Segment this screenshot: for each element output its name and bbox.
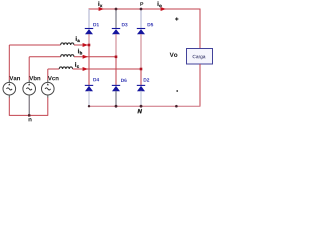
wire: Van top stub [8,80,10,83]
label Vo [170,53,178,57]
wire: leg2 D6 anode lead to bottom rail [115,91,117,106]
junction bottom rail leg1 [88,105,90,107]
junction phase a node [88,44,91,47]
label D4 [93,78,99,81]
label ia [76,36,80,42]
junction top rail leg3 node P [140,8,143,11]
wire: phase a horizontal left [9,44,60,46]
wire: phase b vertical from Vbn [28,57,30,80]
wire: Vcn bottom stub [47,95,49,98]
wire: Vbn top stub [28,80,30,83]
wire: leg3 D2 anode lead to bottom rail [140,91,142,106]
diode D6 [112,85,120,91]
label D3 [122,23,128,26]
polarity minus dot [176,90,178,92]
diode D4 [85,85,93,91]
polarity plus sign [175,17,178,20]
label ic [75,62,79,68]
wire: top rail node P [89,8,201,10]
wire: Vbn bottom stub [28,95,30,98]
label D2 [144,78,150,81]
label n [29,118,32,121]
wire: leg2 phase b node down to D6 [115,57,117,86]
wire: phase b to leg2 [74,56,116,58]
current arrow ib [83,55,88,59]
label Carga [193,55,206,59]
diode D3 [112,29,120,35]
label ib [78,49,82,55]
junction bottom rail load return [175,105,178,108]
label P [140,2,143,6]
wire: phase c horizontal left [48,68,59,70]
wire: phase a to leg1 [74,44,89,46]
current arrow io on top rail [161,7,166,11]
inductor Lb [61,55,74,57]
junction node n [28,114,30,116]
label Vcn [48,76,59,80]
wire: leg2 top lead [115,9,117,29]
source Vbn [23,82,36,95]
junction bottom rail leg3 node N [140,105,143,108]
inductor Lc [59,67,72,69]
wire: Van bottom to neutral bus [8,98,10,116]
wire: bottom rail node N [89,105,201,107]
wire: load bottom to bottom rail [199,64,201,106]
label Vbn [29,76,40,80]
wire: Vcn top stub [47,80,49,83]
inductor La [61,43,74,45]
wire: phase c to leg3 [73,68,141,70]
wire: leg1 top lead (D1 cathode lead) [88,9,90,29]
label io [158,2,162,8]
wire: leg3 D5 anode to phase c node [140,34,142,69]
diode D1 [85,29,93,35]
junction phase b node [115,56,118,59]
current arrow ic [83,67,88,71]
wire: leg1 D1 anode to phase a node [88,34,90,45]
label D6 [121,79,127,82]
wire: phase c vertical from Vcn [47,69,49,80]
junction top rail leg2 [115,8,118,11]
current arrow ix on top rail [99,7,104,11]
wire: leg3 top lead [140,9,142,29]
wire: leg1 phase a node down to D4 [88,45,90,86]
label ix [98,2,102,8]
junction bottom rail leg2 [115,105,118,108]
wire: leg1 D4 anode lead to bottom rail [88,91,90,106]
label D5 [148,23,154,26]
wire: leg2 D3 anode to phase b node [115,34,117,57]
source Vcn [42,82,55,95]
label Van [9,76,20,80]
junction phase c node [140,68,143,71]
wire: neutral bus n [9,114,48,116]
wire: phase b horizontal left [29,56,60,58]
wire: right vertical top rail to load [199,9,201,49]
load box Carga [187,49,213,65]
diode D5 [137,29,145,35]
wire: Vbn bottom to neutral bus [28,98,30,116]
wire: phase a vertical from Van [8,45,10,80]
label D1 [93,23,99,26]
source Van [3,82,16,95]
diode D2 [137,85,145,91]
wire: leg3 phase c node down to D2 [140,69,142,86]
current arrow ia [83,43,88,47]
wire: Vcn bottom to neutral bus [47,98,49,116]
wire: Van bottom stub [8,95,10,98]
label N [138,109,142,113]
